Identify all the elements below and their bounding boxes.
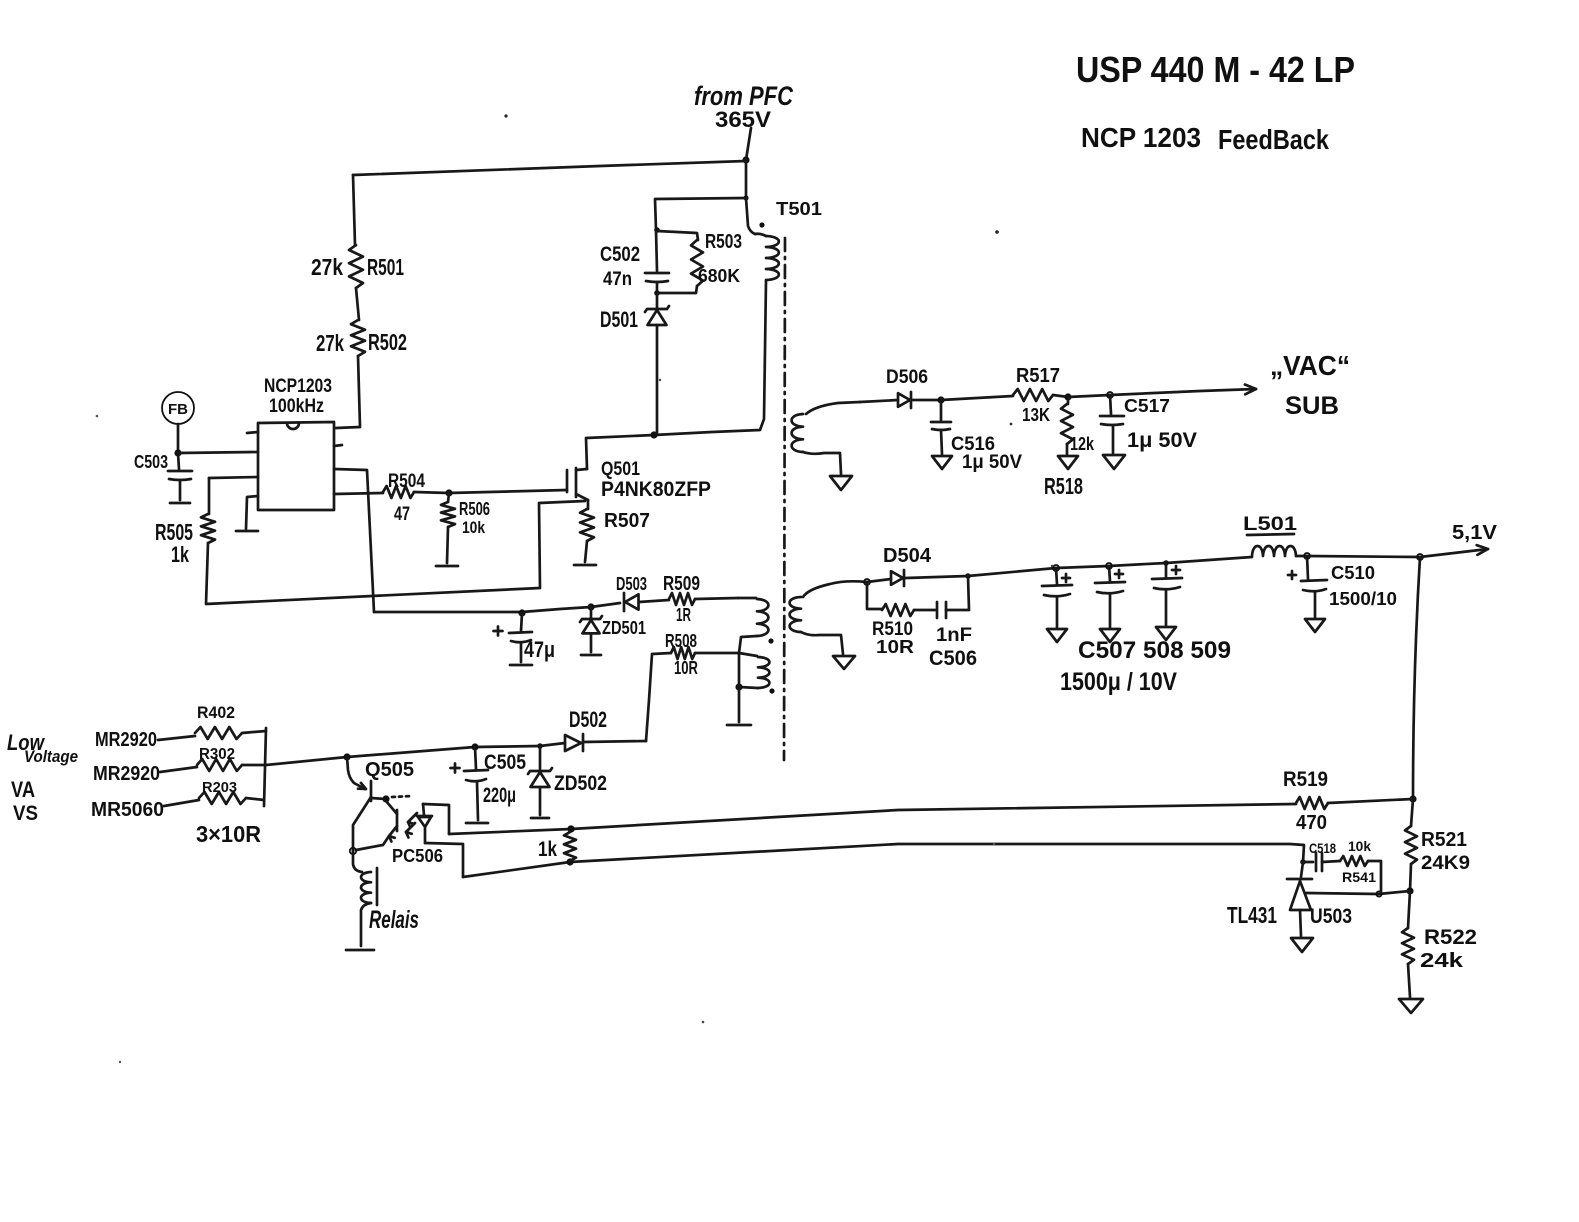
wire 5V rail (968, 557, 1252, 576)
wire drain to primary (586, 281, 766, 469)
svg-text:C503: C503 (134, 452, 168, 472)
svg-text:12k: 12k (1070, 434, 1095, 454)
ground C508 (1100, 629, 1120, 642)
svg-text:R502: R502 (368, 329, 407, 355)
resistor R508 (695, 652, 739, 655)
wire low voltage rail (347, 746, 540, 757)
node snubber top junction (654, 227, 660, 233)
resistor R503 (657, 231, 698, 240)
wire LED top to rail (423, 804, 449, 834)
diode D503 (623, 593, 626, 611)
ground R506 (447, 527, 448, 563)
node C507 junction (1053, 565, 1059, 571)
svg-text:MR2920: MR2920 (93, 763, 160, 785)
svg-text:Q501: Q501 (601, 459, 640, 480)
wire opto rail to R519 (449, 804, 1296, 834)
node relay node (350, 848, 356, 854)
node ZD501 junction (587, 603, 594, 610)
svg-text:FeedBack: FeedBack (1218, 124, 1329, 155)
node winding output (864, 579, 870, 585)
svg-text:1μ 50V: 1μ 50V (962, 452, 1022, 473)
svg-text:R203: R203 (202, 779, 237, 796)
wire optical dashes (392, 796, 412, 797)
ground R518 (1058, 456, 1078, 469)
svg-text:5,1V: 5,1V (1452, 522, 1498, 544)
node D504 cathode junction (965, 573, 971, 579)
resistor 1k feedback (567, 825, 574, 832)
svg-text:R503: R503 (705, 231, 742, 253)
ground R522 (1399, 999, 1423, 1013)
transistor PC506 phototransistor (396, 810, 399, 831)
node primary phase dot (759, 222, 764, 227)
svg-text:10R: 10R (674, 658, 698, 678)
resistor R518 (1067, 397, 1070, 404)
ground IC (246, 496, 258, 529)
capacitor C506 (914, 609, 935, 612)
svg-text:1R: 1R (676, 605, 691, 625)
resistor R302 (160, 767, 197, 772)
svg-text:365V: 365V (715, 107, 771, 132)
svg-text:TL431: TL431 (1227, 902, 1277, 928)
node C509 junction (1163, 560, 1169, 566)
wire bottom rail to TL431 (463, 844, 1304, 877)
node R519/R521 junction (1409, 795, 1416, 802)
wire light arrows (408, 813, 417, 822)
svg-text:3×10R: 3×10R (196, 821, 261, 847)
wire IC comp pin to R505 (209, 477, 258, 478)
svg-text:R402: R402 (197, 703, 235, 722)
svg-text:47μ: 47μ (524, 637, 555, 662)
svg-text:D502: D502 (569, 707, 607, 732)
svg-text:Relais: Relais (369, 906, 419, 934)
wire VAC output arrow (1110, 389, 1256, 395)
diode D504 (867, 579, 891, 582)
wire 365V lead (746, 128, 751, 160)
svg-text:1nF: 1nF (936, 625, 972, 646)
node C516 junction (937, 396, 944, 403)
node C508 junction (1106, 563, 1112, 569)
svg-text:R521: R521 (1421, 829, 1467, 851)
svg-text:220μ: 220μ (483, 784, 516, 807)
resistor R509 (669, 593, 695, 605)
svg-text:P4NK80ZFP: P4NK80ZFP (601, 478, 711, 501)
node aux phase dot 1 (768, 638, 773, 643)
capacitor C502 (656, 230, 657, 271)
svg-text:R501: R501 (367, 254, 404, 280)
pin stub IC pin7 (334, 445, 342, 446)
svg-text:1500μ / 10V: 1500μ / 10V (1060, 668, 1177, 696)
resistor R541 (1340, 856, 1368, 866)
svg-text:C502: C502 (600, 243, 640, 266)
node C518 junction (1300, 859, 1306, 865)
node Q505 base node (382, 795, 389, 802)
node divider junction (1406, 887, 1413, 894)
svg-text:C507 508 509: C507 508 509 (1078, 637, 1231, 664)
node snubber bottom junction (654, 290, 660, 296)
svg-text:SUB: SUB (1285, 392, 1339, 420)
svg-text:C517: C517 (1124, 396, 1170, 416)
svg-text:„VAC“: „VAC“ (1270, 350, 1350, 381)
svg-text:470: 470 (1296, 812, 1327, 834)
svg-text:47n: 47n (603, 269, 632, 290)
transformer core dashed line (784, 238, 785, 760)
ground C509 (1156, 627, 1176, 640)
transformer secondary winding 5V (803, 581, 867, 597)
svg-text:R517: R517 (1016, 365, 1060, 387)
transistor Q501 MOSFET (566, 470, 569, 492)
wire speck marks (504, 114, 507, 117)
svg-text:1k: 1k (538, 838, 557, 861)
ground relay (346, 949, 374, 952)
node 365V junction (742, 156, 749, 163)
capacitor C509 (1165, 563, 1168, 577)
svg-text:13K: 13K (1022, 405, 1050, 425)
node 47u junction (518, 609, 525, 616)
svg-text:C505: C505 (484, 751, 526, 774)
svg-text:1500/10: 1500/10 (1329, 589, 1397, 609)
diode D501 zener (656, 293, 659, 308)
op-amp U503 TL431 shunt regulator (1287, 878, 1312, 881)
svg-text:R518: R518 (1044, 473, 1083, 499)
capacitor C505 (475, 747, 476, 769)
capacitor C507 (1056, 568, 1057, 584)
wire R501-R502 (356, 288, 359, 320)
svg-text:T501: T501 (776, 199, 822, 219)
wire IC drive pin (334, 493, 383, 494)
svg-text:10k: 10k (462, 518, 485, 537)
svg-text:U503: U503 (1310, 905, 1352, 928)
svg-text:VA: VA (11, 777, 35, 802)
wire R505 to MOSFET source (206, 501, 585, 604)
resistor R506 (448, 493, 449, 502)
node C510 junction (1296, 555, 1307, 558)
svg-text:FB: FB (168, 401, 188, 418)
ground TL431 (1291, 938, 1313, 952)
svg-text:NCP1203: NCP1203 (264, 376, 332, 397)
svg-text:R541: R541 (1342, 869, 1376, 885)
ground R507 (585, 541, 587, 562)
wire TL431 ref (1306, 891, 1410, 894)
node feedback junction (1417, 554, 1423, 560)
node gate divider junction (445, 489, 452, 496)
capacitor C516 (940, 400, 943, 420)
capacitor C 47u (521, 613, 522, 631)
svg-text:R509: R509 (663, 573, 700, 595)
ground VAC winding (830, 476, 852, 490)
svg-text:Q505: Q505 (365, 759, 414, 781)
ground 5V winding (833, 656, 855, 669)
svg-text:27k: 27k (311, 254, 343, 280)
capacitor C517 (1110, 395, 1111, 414)
resistor R505 (208, 478, 211, 514)
ground C507 (1047, 629, 1067, 642)
transformer secondary winding VAC (806, 402, 860, 414)
wire snubber top (655, 198, 746, 230)
resistor R519 (1296, 797, 1328, 809)
svg-text:27k: 27k (316, 330, 344, 356)
diode D502 (583, 741, 646, 742)
resistor R517 (1013, 389, 1053, 401)
diode D506 (860, 400, 898, 402)
svg-text:680K: 680K (698, 266, 740, 286)
wire C516 to R517 (941, 396, 1013, 400)
wire FB to IC (177, 424, 180, 453)
resistor R510 (867, 582, 882, 609)
wire resistor bank bus (264, 728, 266, 806)
transformer T501 primary winding (746, 198, 755, 234)
svg-text:47: 47 (394, 504, 410, 525)
svg-text:10k: 10k (1348, 838, 1371, 854)
node R518 junction (1053, 395, 1068, 397)
svg-text:C506: C506 (929, 647, 977, 670)
svg-text:VS: VS (13, 802, 38, 825)
wire R518 to C517 (1068, 395, 1110, 397)
wire IC pin to VCC supply line (334, 469, 374, 612)
capacitor C510 (1307, 556, 1308, 579)
resistor R203 (164, 800, 199, 806)
svg-text:100kHz: 100kHz (269, 396, 324, 417)
wire top rail to R501 (353, 161, 746, 175)
ground aux windings (738, 653, 741, 722)
node C517 junction (1107, 392, 1113, 398)
svg-text:24K9: 24K9 (1421, 853, 1470, 874)
svg-text:R522: R522 (1424, 926, 1477, 949)
wire R504 to gate (414, 490, 567, 493)
pin stub IC pin1 (247, 432, 258, 433)
svg-text:24k: 24k (1420, 950, 1464, 972)
svg-text:MR2920: MR2920 (95, 729, 157, 751)
svg-text:MR5060: MR5060 (91, 799, 164, 821)
svg-text:1μ 50V: 1μ 50V (1127, 429, 1197, 452)
svg-text:1k: 1k (171, 542, 190, 567)
resistor R502 (351, 320, 365, 356)
capacitor C518 (1303, 861, 1313, 864)
svg-text:R506: R506 (459, 499, 490, 519)
node Q505 emitter junction (343, 753, 350, 760)
node aux phase dot 2 (769, 688, 774, 693)
node 1k bottom junction (566, 858, 573, 865)
svg-text:PC506: PC506 (392, 846, 443, 866)
wire feedback sense down (1413, 557, 1420, 799)
svg-text:R302: R302 (199, 746, 235, 763)
svg-text:D501: D501 (600, 307, 638, 332)
wire bank to Q505 (266, 757, 347, 765)
op-amp U NCP1203 controller IC (258, 422, 334, 510)
svg-text:10R: 10R (876, 637, 914, 657)
node aux winding junction (735, 683, 742, 690)
resistor R522 (1408, 891, 1410, 928)
svg-text:ZD502: ZD502 (554, 772, 607, 795)
capacitor C508 (1109, 566, 1110, 581)
svg-text:R507: R507 (604, 510, 650, 532)
wire R502 to IC VCC (336, 356, 360, 428)
inductor relay coil (353, 851, 362, 872)
diode ZD502 zener (539, 746, 542, 769)
node 1k top junction (567, 825, 574, 832)
svg-text:C510: C510 (1331, 563, 1375, 583)
svg-text:D504: D504 (883, 545, 932, 567)
inductor L501 (1252, 546, 1296, 556)
wire VCC supply line (374, 603, 620, 612)
resistor R507 (587, 500, 590, 509)
svg-text:R519: R519 (1283, 768, 1328, 791)
svg-text:R504: R504 (388, 471, 425, 492)
wire 5V output (1307, 556, 1420, 557)
svg-text:D503: D503 (616, 574, 647, 594)
diode ZD501 zener (590, 607, 593, 618)
svg-text:USP 440 M - 42 LP: USP 440 M - 42 LP (1076, 49, 1355, 90)
resistor R402 (158, 736, 195, 740)
ground C516 (932, 456, 952, 469)
svg-text:L501: L501 (1243, 514, 1298, 535)
node C505 junction (471, 743, 478, 750)
resistor R501 (349, 245, 363, 288)
diode PC506 LED (423, 804, 424, 815)
svg-text:D506: D506 (886, 367, 928, 388)
node primary/snubber junction (743, 195, 748, 200)
svg-text:NCP 1203: NCP 1203 (1081, 122, 1201, 153)
resistor R504 (383, 486, 414, 498)
wire down to primary (745, 160, 748, 198)
resistor R521 (1411, 799, 1413, 826)
ground C517 (1103, 455, 1125, 469)
node drain/D501 junction (650, 431, 657, 438)
node ZD502 junction (537, 743, 543, 749)
transformer aux winding 1 (738, 597, 756, 600)
svg-text:Voltage: Voltage (24, 747, 78, 766)
svg-text:R508: R508 (665, 631, 697, 651)
svg-text:C518: C518 (1309, 840, 1336, 856)
svg-text:ZD501: ZD501 (602, 618, 646, 638)
transformer aux winding 2 (739, 653, 757, 656)
wire LED bottom to rail (425, 843, 463, 877)
wire R501 top lead (353, 175, 355, 245)
node FB terminal (162, 392, 194, 424)
ground C510 (1305, 619, 1325, 632)
transistor Q505 (347, 757, 365, 789)
